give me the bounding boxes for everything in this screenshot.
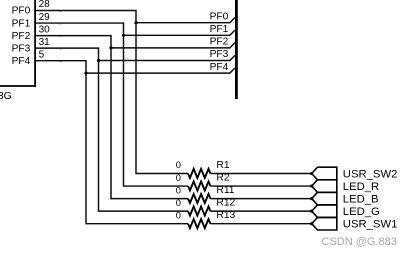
svg-text:PF4: PF4 [12,56,31,67]
svg-text:PF3: PF3 [12,43,31,54]
resistor R13 [188,219,210,228]
svg-text:R2: R2 [216,172,229,183]
pin end mark PF3 [60,48,62,51]
svg-text:PF2: PF2 [12,31,31,42]
svg-text:USR_SW2: USR_SW2 [343,169,398,181]
svg-text:LED_G: LED_G [343,206,380,218]
svg-text:5: 5 [39,49,45,60]
svg-text:R13: R13 [216,210,235,221]
svg-text:CSDN @G.883: CSDN @G.883 [322,236,397,248]
svg-text:USR_SW1: USR_SW1 [343,219,398,231]
off-page connector LED_B [312,192,337,205]
svg-text:PF3: PF3 [210,49,229,60]
svg-text:LED_R: LED_R [343,181,379,193]
junction at USR_SW2 connector [310,172,313,175]
bus PF[0:4] [235,0,238,99]
svg-text:0: 0 [176,185,181,195]
junction PF1 branch [122,34,125,37]
svg-text:R12: R12 [216,198,235,209]
svg-text:PF0: PF0 [210,11,229,22]
svg-text:0: 0 [176,198,181,208]
svg-text:PF2: PF2 [210,37,229,48]
junction at LED_R connector [310,184,313,187]
junction PF4 branch [84,72,87,75]
svg-text:PF1: PF1 [12,18,31,29]
pin end mark PF1 [60,22,62,25]
svg-text:0: 0 [176,173,181,183]
wire PF2 pin to corner and down to R11 row [36,36,188,199]
resistor R2 [188,181,210,190]
pin end mark PF0 [60,10,62,13]
svg-text:3G: 3G [0,90,12,102]
wire PF3 pin to corner and down to R12 row [36,48,188,211]
svg-text:28: 28 [39,0,51,10]
wire PF4 pin to corner and down to R13 row [36,61,188,224]
wire PF2 branch to bus entry [111,43,235,48]
microcontroller U1 (partial, clipped at left edge) [0,0,36,86]
wire PF3 branch to bus entry [99,55,235,60]
pin end mark PF4 [60,60,62,63]
wire R11 to LED_B connector [210,198,311,200]
svg-text:R11: R11 [216,185,234,196]
off-page connector USR_SW1 [312,217,337,230]
junction PF0 branch [134,21,137,24]
pin end mark PF2 [60,35,62,38]
wire PF0 pin to corner and down to R1 row [36,11,188,174]
svg-text:PF4: PF4 [210,62,229,73]
svg-text:30: 30 [39,24,51,35]
svg-text:0: 0 [176,160,181,170]
svg-text:R1: R1 [216,160,229,171]
off-page connector LED_G [312,205,337,218]
resistor R1 [188,169,210,178]
svg-text:31: 31 [39,37,51,48]
wire R2 to LED_R connector [210,185,311,187]
junction at LED_G connector [310,210,313,213]
junction at USR_SW1 connector [310,222,313,225]
resistor R12 [188,207,210,216]
wire PF1 branch to bus entry [124,30,235,35]
wire R1 to USR_SW2 connector [210,173,311,175]
junction PF3 branch [97,59,100,62]
resistor R11 [188,194,210,203]
svg-text:LED_B: LED_B [343,194,379,206]
junction PF2 branch [109,46,112,49]
wire PF1 pin to corner and down to R2 row [36,23,188,186]
svg-text:0: 0 [176,210,181,220]
wire R13 to USR_SW1 connector [210,223,311,225]
wire PF4 branch to bus entry [86,68,235,73]
svg-text:PF1: PF1 [210,24,229,35]
svg-text:PF0: PF0 [12,6,31,17]
wire PF0 branch to bus entry [136,18,235,23]
off-page connector LED_R [312,180,337,193]
svg-text:29: 29 [39,12,51,23]
off-page connector USR_SW2 [312,167,337,180]
wire R12 to LED_G connector [210,210,311,212]
junction at LED_B connector [310,197,313,200]
